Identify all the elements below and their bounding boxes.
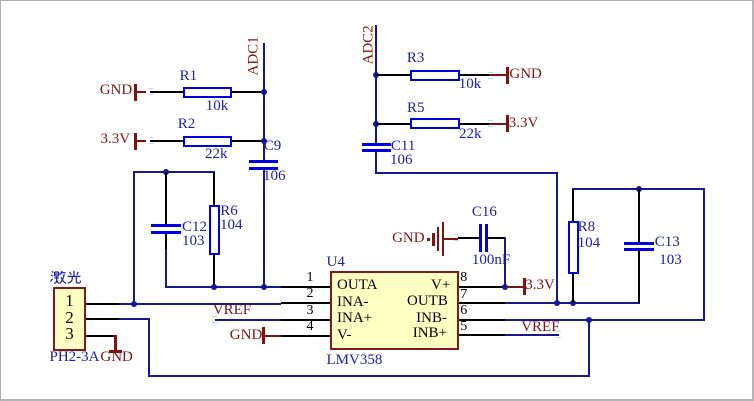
power port GND (R1 left)	[97, 81, 155, 105]
net label ADC1	[247, 38, 262, 76]
wire vertical down to OUTB	[556, 172, 558, 304]
power port GND (V- pin4)	[228, 326, 283, 346]
wire bottom horizontal	[148, 375, 590, 377]
wire bottom left vertical	[148, 318, 150, 377]
pin number 1	[65, 292, 74, 309]
wire INB+ to VREF	[505, 334, 560, 336]
wire R8/C13 top	[572, 188, 705, 190]
capacitor C12	[149, 172, 207, 250]
power port 3.3V (R5 right)	[489, 114, 545, 138]
wire ADC2 vertical	[375, 25, 377, 144]
pin 8 V+	[459, 286, 505, 288]
net label VREF (INA+)	[213, 303, 251, 318]
resistor R3	[373, 49, 493, 99]
junction ADC1/R2	[261, 138, 267, 144]
wire C12 bottom corner	[165, 249, 167, 288]
label 激光	[50, 270, 67, 284]
resistor R2	[146, 116, 266, 166]
wire INA- net (connector pin1 to op-amp pin2)	[119, 303, 282, 305]
connector J 激光 PH2-3A	[49, 267, 124, 367]
junction C13 top	[636, 186, 642, 192]
pin number 3	[65, 325, 74, 342]
junction feedback/pin1	[131, 301, 137, 307]
wire INB- net	[505, 319, 706, 321]
connector body	[53, 287, 86, 351]
junction R6 bottom	[211, 284, 217, 290]
wire C9 bottom to OUTA net	[263, 169, 265, 287]
power port GND (R3 right)	[489, 65, 545, 89]
junction C9 line / OUTA	[261, 284, 267, 290]
pin number 2	[65, 309, 74, 326]
op-amp U4 LMV358	[301, 253, 511, 373]
pin 6 INB-	[459, 319, 505, 321]
wire bottom right vertical to INB-	[588, 321, 590, 377]
ground earth symbol (C16 left)	[391, 219, 461, 259]
pin 3 stub	[86, 335, 116, 337]
resistor R5	[373, 98, 493, 148]
resistor R1	[146, 67, 266, 117]
wire ADC1 vertical	[263, 43, 265, 160]
junction C12 top	[163, 169, 169, 175]
wire VREF to op-amp pin3	[215, 319, 282, 321]
wire horizontal C11 to right vertical	[375, 172, 558, 174]
pin 4 V-	[281, 335, 330, 337]
label PH2-3A	[50, 350, 100, 365]
pin 2 INA-	[281, 302, 330, 304]
wire A-loop left vertical	[133, 171, 135, 305]
wire pin2 to bottom vertical	[119, 318, 150, 320]
wire OUTA net horizontal	[165, 286, 281, 288]
wire C11 bottom corner to OUTB net	[375, 152, 377, 173]
power port 3.3V (V+ pin8)	[506, 277, 566, 297]
wire right vertical (top net to INB-)	[703, 188, 705, 320]
net label VREF (INB+)	[521, 320, 559, 335]
power port 3.3V (R2 left)	[97, 130, 155, 154]
junction OUTB/R8	[570, 300, 576, 306]
net label ADC2	[362, 27, 377, 65]
junction V+	[502, 284, 508, 290]
pin 2 stub	[86, 318, 119, 320]
capacitor C9	[247, 139, 292, 189]
junction ADC1/R1	[261, 89, 267, 95]
pin 1 stub	[86, 303, 119, 305]
capacitor C13	[621, 189, 691, 303]
junction OUTB/C11branch	[554, 300, 560, 306]
power port GND (pin 3)	[99, 335, 139, 367]
capacitor C11	[359, 137, 423, 173]
capacitor C16	[456, 204, 516, 268]
pin 1 OUTA	[281, 286, 330, 288]
pin 5 INB+	[459, 334, 505, 336]
wire OUTB net	[505, 302, 640, 304]
pin 3 INA+	[281, 319, 330, 321]
junction ADC2/R3	[373, 72, 379, 78]
wire C16 down to V+	[504, 237, 506, 289]
wire A-loop top	[133, 171, 216, 173]
pin 7 OUTB	[459, 302, 505, 304]
resistor R6	[207, 172, 247, 288]
junction INB-/bottom	[586, 317, 592, 323]
resistor R8	[565, 189, 605, 303]
junction ADC2/R5	[373, 121, 379, 127]
